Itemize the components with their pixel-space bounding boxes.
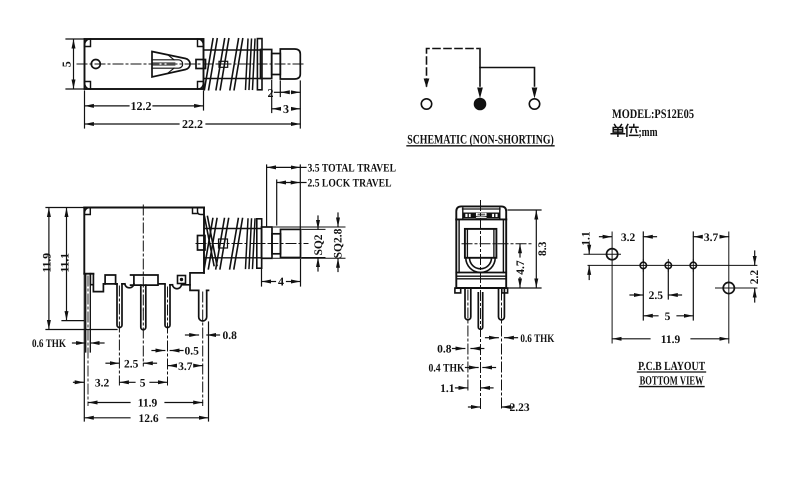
view A plunger shaft: [261, 50, 272, 79]
view C horizontal centerline: [462, 243, 531, 245]
dim 11.1v line: [66, 208, 68, 321]
view B pin guide bump 2: [172, 285, 190, 289]
view A corner step bottom-right: [198, 82, 204, 90]
schematic terminal left: [421, 99, 431, 109]
pcb row line: [588, 264, 757, 266]
pcb hole left: [607, 249, 618, 260]
view B right boss: [198, 236, 206, 251]
view C cap band center gap: [476, 213, 487, 219]
dim SQ2.8 extension lines: [274, 226, 346, 228]
svg-text:2: 2: [268, 86, 274, 100]
svg-text:2.5: 2.5: [649, 290, 664, 302]
svg-text:5: 5: [140, 378, 146, 390]
view B plunger cap side: [281, 229, 301, 257]
svg-text:11.9: 11.9: [41, 253, 53, 273]
dim 11.1v extension line: [62, 320, 84, 322]
view C plunger inner lines: [466, 229, 468, 258]
view C cap band cutout 2: [469, 214, 471, 218]
svg-text:BOTTOM VIEW: BOTTOM VIEW: [640, 373, 704, 387]
dim 8.3 extension lines: [508, 209, 541, 211]
svg-text:5: 5: [59, 61, 73, 67]
view B bottom edge right of block: [170, 284, 172, 286]
view C left foot: [455, 288, 461, 293]
dim 11.9v line: [48, 208, 50, 330]
svg-text:MODEL:PS12E05: MODEL:PS12E05: [612, 106, 694, 121]
view A plunger neck: [272, 54, 281, 75]
view C cap band cutout 1: [465, 214, 468, 218]
view C pin C centerline: [501, 290, 503, 409]
dim 2.2 arrows: [754, 251, 756, 265]
dim 12.6 line: [85, 417, 131, 419]
svg-text:2.5: 2.5: [124, 358, 139, 370]
svg-text:12.2: 12.2: [131, 99, 152, 113]
svg-text:4: 4: [278, 275, 284, 289]
dim 2.5lock line: [277, 182, 300, 184]
view C base line 1: [456, 272, 506, 274]
svg-text:SQ2: SQ2: [313, 234, 325, 255]
svg-text:3.2: 3.2: [95, 378, 110, 390]
view C cap center marks: [475, 214, 488, 217]
view B bottom edge segment: [116, 283, 125, 285]
dim 0.5 arrows: [152, 350, 165, 352]
dim 3.5 line: [267, 166, 300, 168]
svg-text:P.C.B LAYOUT: P.C.B LAYOUT: [638, 359, 706, 373]
dim 8.3 line: [535, 210, 537, 288]
view A latch wedge outline: [152, 52, 190, 78]
view B stem collar: [219, 239, 228, 248]
pcb ext small hole3 up: [692, 232, 694, 261]
view B pin 2: [141, 285, 146, 330]
view A latch cross braces: [168, 55, 175, 74]
view C body inner wall right: [502, 219, 504, 272]
pcb ext line right long: [728, 232, 730, 343]
view A latch slot lines: [152, 63, 175, 65]
dim 0.8C arrows: [453, 348, 465, 350]
view B pin 1: [117, 284, 122, 328]
view B horizontal centerline: [196, 243, 308, 245]
svg-text:2.2: 2.2: [749, 270, 761, 285]
dim 2.5 arrows: [106, 362, 119, 364]
view B lever arm: [205, 217, 218, 266]
view B bottom slot left: [105, 275, 116, 284]
view A latch pin: [152, 60, 183, 68]
dim 12.2 extension lines: [84, 91, 86, 128]
unit label hanzi wei: [626, 125, 638, 137]
svg-text:2.23: 2.23: [510, 402, 530, 414]
view B left foot step: [90, 274, 115, 292]
view B top-left corner step: [84, 208, 90, 215]
view C cap black band: [464, 213, 500, 218]
view C cap inner corner lines: [462, 208, 464, 219]
svg-text:1.1: 1.1: [581, 231, 593, 246]
svg-text:22.2: 22.2: [182, 117, 203, 131]
dim 0.6thkC arrows: [486, 337, 499, 339]
view B body top edge: [84, 207, 204, 209]
view C body side right: [505, 219, 507, 288]
view A stem collar: [219, 61, 228, 67]
svg-text:11.1: 11.1: [59, 253, 71, 273]
pcb ext small hole3 down: [692, 269, 694, 320]
view C pin C: [499, 288, 505, 320]
svg-text:SCHEMATIC (NON-SHORTING): SCHEMATIC (NON-SHORTING): [407, 132, 554, 147]
pcb small hole 3: [690, 262, 696, 268]
schematic arrow middle: [478, 88, 482, 97]
view B pin guide bump: [125, 284, 134, 288]
svg-text:5: 5: [665, 311, 671, 323]
schematic title underline: [407, 145, 554, 147]
view B anchor hole square: [178, 276, 186, 284]
pcb ext line left long: [611, 232, 613, 343]
view A pilot hole: [91, 60, 100, 69]
pcb ext small hole1 up: [642, 232, 644, 261]
pcb title underline1: [638, 371, 706, 373]
dim 22.2 line: [85, 123, 179, 125]
view C pin B: [478, 293, 482, 329]
svg-text:SQ2.8: SQ2.8: [333, 228, 345, 258]
svg-text:2.5 LOCK TRAVEL: 2.5 LOCK TRAVEL: [308, 178, 392, 190]
svg-text:11.9: 11.9: [661, 334, 681, 346]
view B ext 12.6 left: [83, 274, 85, 421]
dim 4.7 line: [519, 244, 521, 257]
pcb ext small hole2 down: [667, 269, 669, 299]
dim 4 extension lines: [261, 260, 263, 286]
view A switch body outline: [85, 39, 204, 89]
view B ext 12.6 right: [208, 322, 210, 421]
dim 2.23 arrows: [469, 406, 481, 408]
view B spring compressed coils: [246, 219, 256, 268]
unit label hanzi dan: [611, 125, 624, 137]
view C right foot: [502, 288, 508, 293]
pcb hole right: [723, 282, 734, 293]
dim SQ2.8 arrows: [337, 213, 339, 227]
dim 11.9v extension lines: [46, 207, 84, 209]
svg-text:1.1: 1.1: [440, 383, 455, 395]
view B wide pin: [199, 290, 207, 321]
view A centerline: [77, 63, 306, 65]
dim 11.9pcb line: [612, 338, 650, 340]
dim 12.2 line: [85, 105, 129, 107]
dim 5 line: [73, 39, 75, 89]
dim 3 line: [272, 108, 280, 110]
pcb hole right h-tick: [716, 287, 757, 289]
view C body bottom: [456, 287, 506, 289]
view A spring coils: [204, 39, 242, 90]
pcb small hole 1: [640, 262, 646, 268]
view B body left edge: [83, 208, 85, 274]
schematic arrow left: [424, 79, 428, 86]
view B spring coils: [204, 219, 242, 269]
dim 3 extension line: [271, 81, 273, 113]
view C body inner wall left: [458, 219, 460, 272]
view B left pin centerline: [87, 276, 89, 406]
pcb small hole 1 tick: [642, 259, 644, 271]
pcb small hole 3 tick: [692, 259, 694, 271]
svg-text:;mm: ;mm: [639, 124, 658, 139]
view B anchor hole dot: [180, 278, 183, 281]
dim 2 extension line: [279, 81, 281, 97]
pcb title underline2: [640, 386, 705, 388]
svg-text:0.8: 0.8: [437, 344, 452, 356]
dim 2.23 leader: [504, 406, 508, 408]
view C cap bottom line: [456, 218, 506, 220]
schematic wire right: [480, 68, 535, 87]
svg-text:11.9: 11.9: [138, 398, 158, 410]
svg-text:3.7: 3.7: [178, 361, 193, 373]
view B left pin: [86, 274, 91, 352]
dim 2.5lock extension line: [276, 180, 278, 225]
view A corner step top-left: [85, 39, 91, 47]
dim 5 extension lines: [66, 38, 85, 40]
view C body side left: [455, 219, 457, 288]
svg-text:0.6 THK: 0.6 THK: [32, 338, 66, 350]
view A corner step top-right: [198, 39, 204, 47]
dim 3.7 line: [168, 365, 175, 367]
view B plunger neck side: [272, 234, 281, 254]
dim 3.2-5 line: [74, 381, 85, 383]
view C plunger front: [465, 229, 497, 258]
view C pin A centerline: [467, 290, 469, 390]
view C spring dome inner: [470, 258, 492, 269]
pcb hole left h-tick: [584, 253, 621, 255]
dim 0.8 arrows: [186, 334, 199, 336]
view A spring compressed coils: [246, 39, 256, 89]
view C spring dome outer: [466, 258, 495, 273]
svg-text:3.7: 3.7: [704, 232, 719, 244]
schematic wire middle vertical: [479, 49, 481, 87]
view B vertical centerline: [142, 205, 144, 310]
svg-text:4.7: 4.7: [515, 260, 527, 275]
view A right-center boss: [196, 60, 206, 69]
svg-text:0.5: 0.5: [185, 346, 200, 358]
view B spring seat plate: [257, 219, 262, 268]
dim 11.9b line: [88, 402, 130, 404]
view C cap band cutout 4: [495, 214, 498, 218]
view A plunger stem behind spring: [204, 50, 261, 79]
view B plunger stem behind spring: [204, 229, 262, 258]
view B center block: [131, 275, 165, 285]
view B body right edge: [203, 208, 205, 273]
dim 1.1C arrows: [456, 387, 468, 389]
svg-text:3.5 TOTAL TRAVEL: 3.5 TOTAL TRAVEL: [308, 163, 397, 175]
view B bottom edge left: [84, 273, 93, 275]
svg-text:0.6 THK: 0.6 THK: [520, 333, 554, 345]
view A corner step bottom-left: [85, 82, 91, 90]
schematic arrow right: [532, 88, 536, 97]
schematic terminal middle filled: [474, 98, 485, 109]
pcb small hole 2: [665, 262, 671, 268]
dim 1.1pcb arrows: [588, 243, 590, 254]
dim SQ2 extension lines: [302, 228, 325, 230]
view B bottom right step: [190, 273, 209, 291]
dim 0.6thk arrows: [73, 342, 86, 344]
view A spring seat plate: [257, 39, 262, 90]
view C cap outline: [456, 206, 506, 219]
dim 3.5 extension lines: [266, 165, 268, 226]
view B wide pin centerline: [202, 292, 204, 406]
view A plunger cap: [280, 49, 300, 79]
schematic dashed wire left: [427, 49, 479, 87]
svg-text:0.8: 0.8: [223, 330, 238, 342]
view B pin 3: [165, 285, 170, 328]
view C cap band cutout 3: [492, 214, 494, 218]
svg-text:3.2: 3.2: [621, 232, 636, 244]
dim SQ2 arrows: [317, 216, 319, 229]
view B plunger shaft side: [262, 227, 273, 258]
view C pin A: [465, 288, 471, 320]
svg-text:8.3: 8.3: [537, 241, 549, 256]
view B top-right tab: [193, 208, 205, 215]
dim 3.2pcb line: [600, 236, 612, 238]
pcb ext small hole1 down: [642, 269, 644, 320]
view B pin 2 centerline: [142, 310, 144, 366]
schematic terminal right: [529, 99, 539, 109]
svg-text:12.6: 12.6: [138, 413, 158, 425]
view B pin 1 centerline: [118, 286, 120, 385]
view C vertical centerline: [480, 201, 482, 409]
dim 2 line: [281, 91, 290, 93]
view B pin 3 centerline: [167, 287, 169, 385]
dim 4 line: [262, 281, 276, 283]
svg-text:3: 3: [283, 102, 289, 116]
view C base line 2: [456, 275, 506, 277]
dim 2.5pcb arrows: [630, 294, 643, 296]
view C base line 3: [456, 278, 506, 280]
dim 3.7pcb line: [694, 236, 702, 238]
dim 5pcb line: [644, 315, 659, 317]
pcb small hole 2 tick: [667, 259, 669, 271]
view C cap inner top line: [463, 208, 501, 210]
svg-text:0.4 THK: 0.4 THK: [429, 363, 465, 375]
dim 0.4thk arrows: [466, 367, 479, 369]
